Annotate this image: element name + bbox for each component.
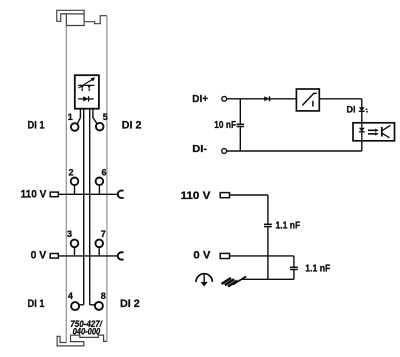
svg-text:1: 1 (68, 112, 73, 122)
svg-text:DI+: DI+ (192, 93, 208, 105)
svg-text:1.1 nF: 1.1 nF (305, 263, 330, 274)
svg-text:110 V: 110 V (21, 189, 47, 201)
svg-text:0 V: 0 V (31, 250, 47, 262)
svg-text:DI-: DI- (192, 143, 207, 155)
svg-text:10 nF: 10 nF (214, 120, 236, 131)
svg-text:040-000: 040-000 (73, 326, 101, 337)
svg-text:8: 8 (101, 291, 106, 301)
svg-text:DI 1: DI 1 (28, 120, 45, 132)
svg-text:3: 3 (67, 229, 72, 239)
svg-text:7: 7 (101, 229, 106, 239)
svg-text:DI 2: DI 2 (122, 120, 142, 132)
svg-text:4: 4 (68, 291, 73, 301)
svg-text:110 V: 110 V (181, 190, 212, 202)
svg-text:DI 1: DI 1 (28, 298, 45, 310)
svg-text:5: 5 (103, 112, 108, 122)
svg-text:2: 2 (68, 167, 73, 177)
svg-text:DI 2: DI 2 (120, 298, 140, 310)
svg-text:DI: DI (347, 105, 356, 115)
svg-text:1.1 nF: 1.1 nF (276, 221, 301, 232)
svg-text:0 V: 0 V (193, 250, 211, 262)
svg-text:6: 6 (101, 167, 106, 177)
